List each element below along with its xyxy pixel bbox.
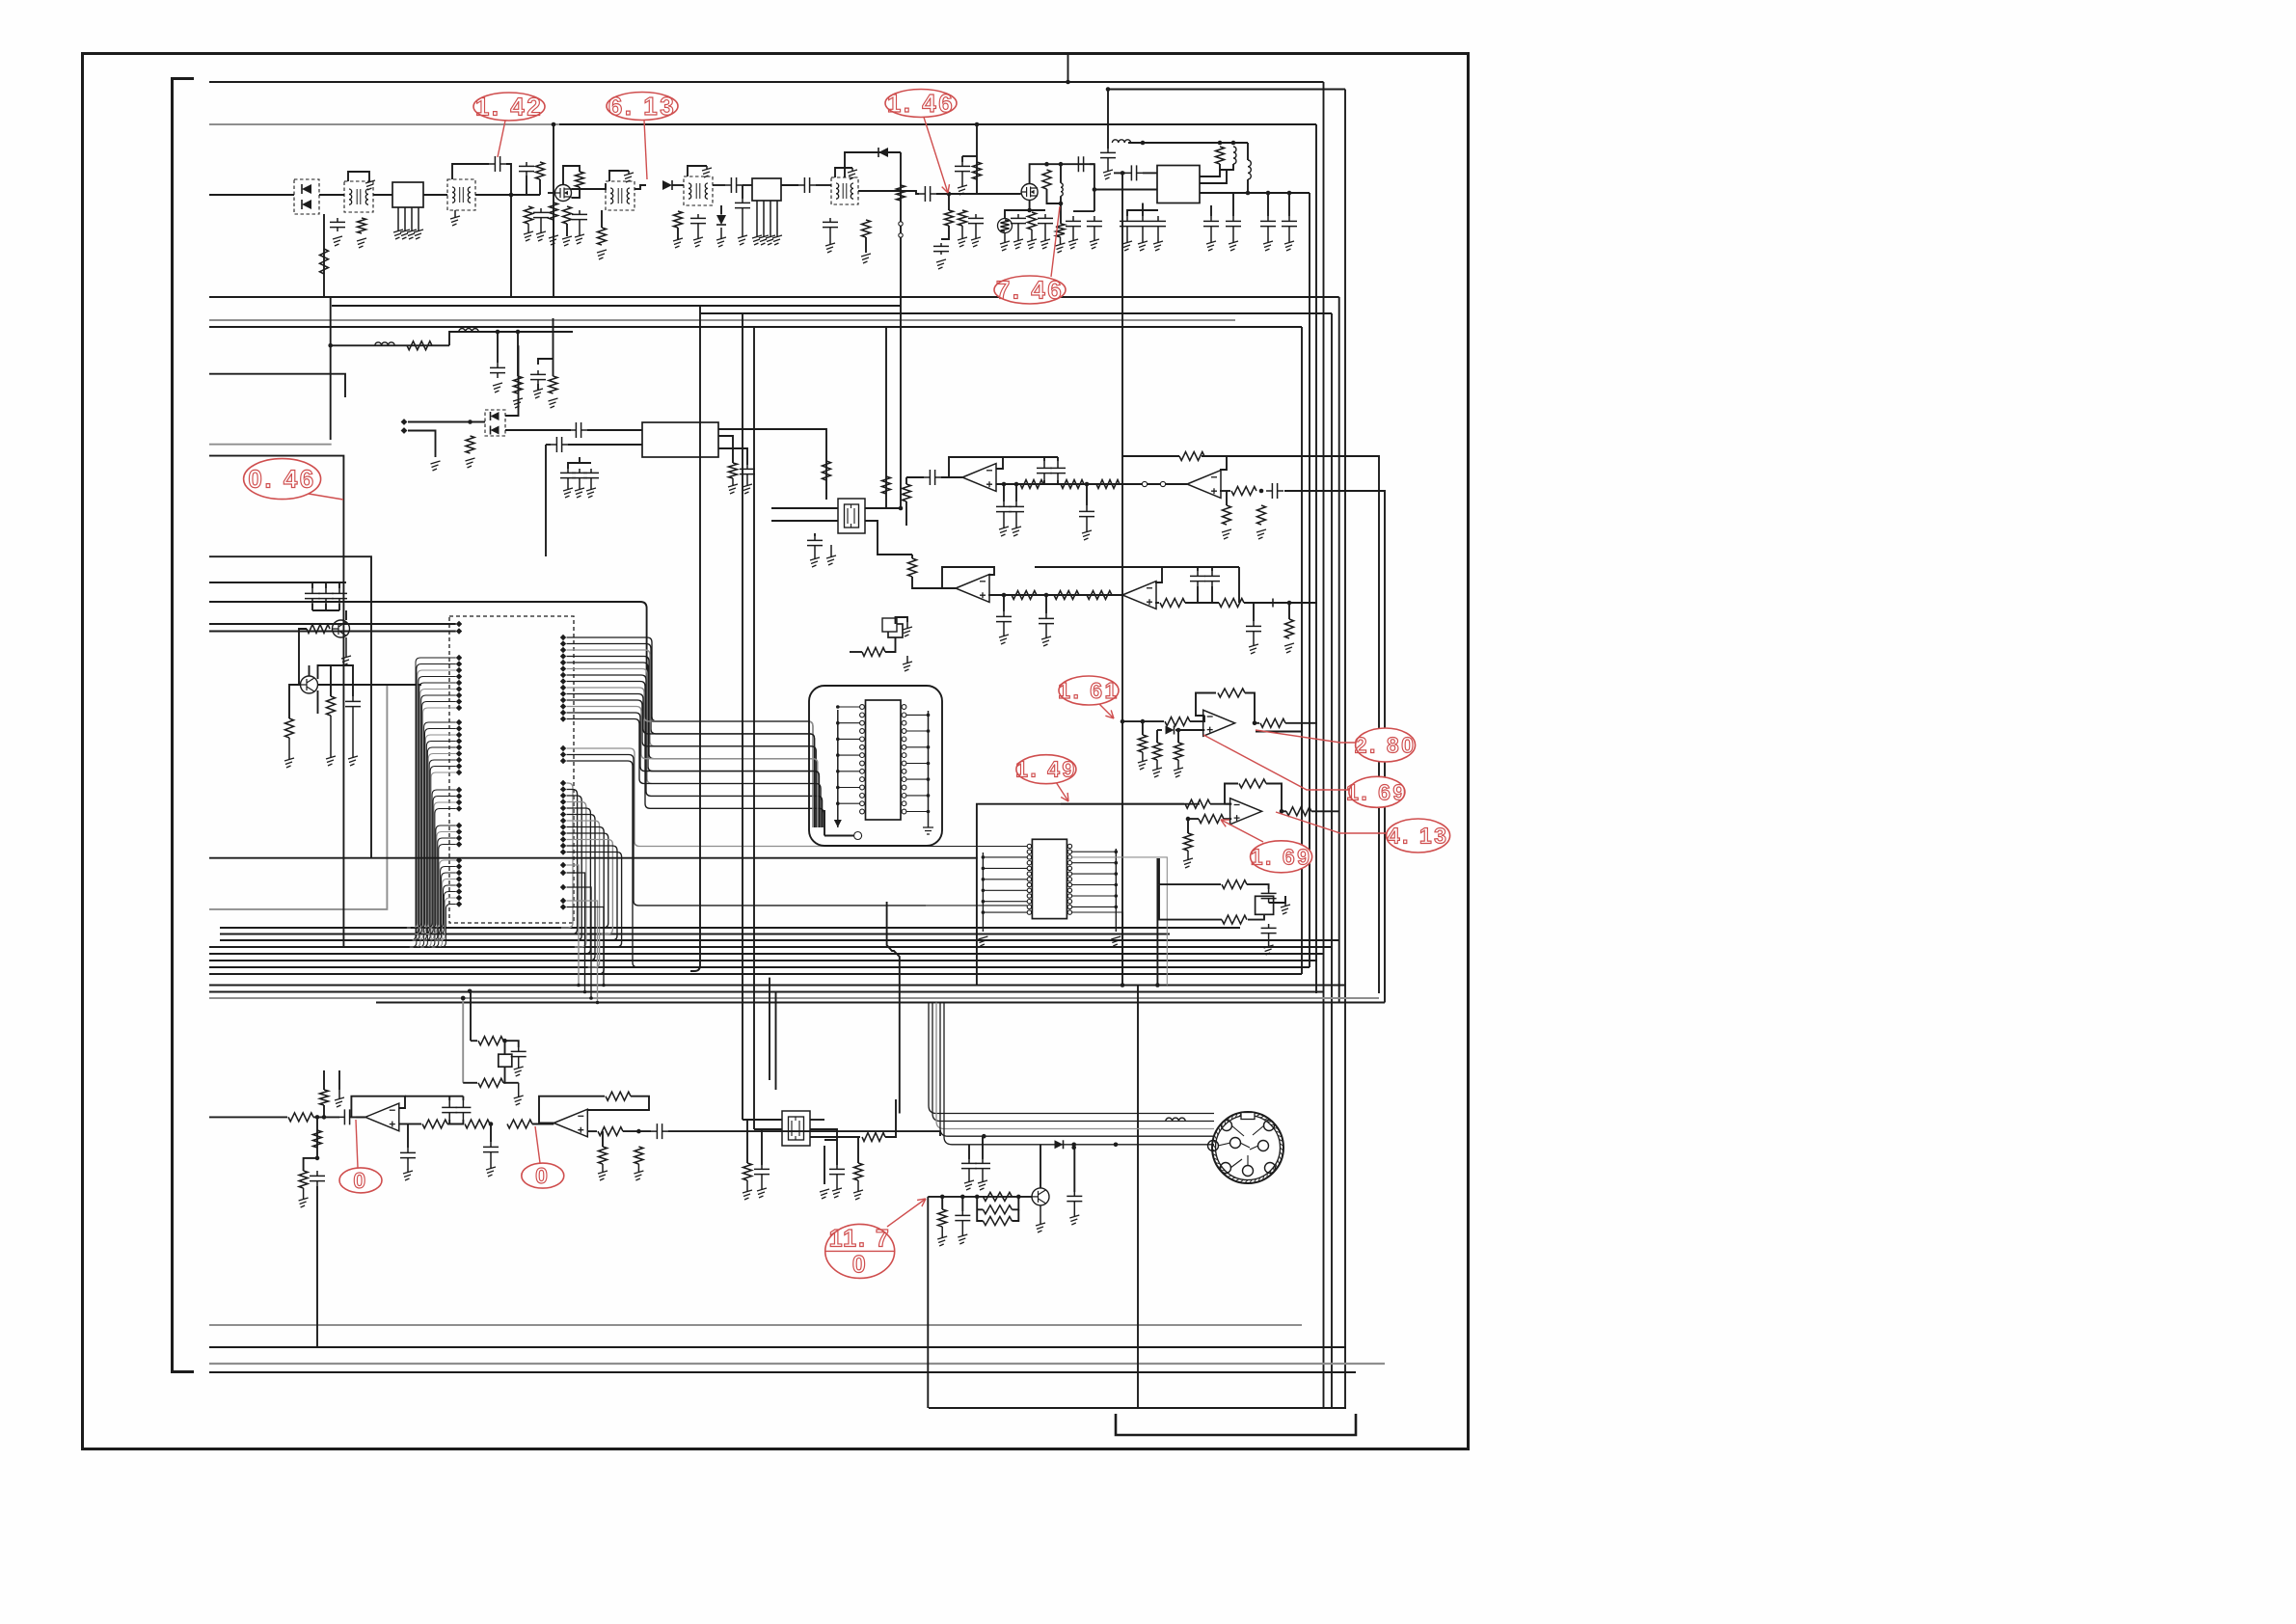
wire: [587, 1096, 649, 1110]
ground R23: [549, 398, 558, 408]
capacitor C12: [933, 243, 949, 255]
wire T5 top loop: [835, 168, 852, 177]
ground aux: [335, 1097, 344, 1107]
pin U3 R30: [560, 862, 566, 868]
wire to FL3: [587, 429, 642, 431]
junction: [1115, 861, 1119, 865]
wire U1B fb right: [1202, 456, 1227, 470]
wire: [311, 604, 313, 610]
capacitor bypass x1315: [1260, 216, 1276, 231]
junction: [1002, 593, 1007, 598]
pin U3 R22: [560, 805, 566, 811]
junction: [583, 990, 587, 994]
wire U1A feedback: [949, 457, 1003, 477]
ground Q5: [1036, 1223, 1045, 1232]
pin U3 L6: [456, 673, 462, 679]
ground R69: [634, 1171, 643, 1180]
pin U3 R32: [560, 884, 566, 890]
capacitor C13: [968, 214, 984, 228]
ground FL1 pin2: [404, 207, 406, 231]
wire: [977, 1197, 983, 1221]
wire U1B fb left: [1123, 456, 1179, 457]
wire: [746, 1120, 748, 1163]
ground R50: [1174, 768, 1183, 777]
wire: [1197, 586, 1199, 603]
junction: [315, 1115, 320, 1120]
ground R71: [299, 1198, 309, 1207]
wire: [1244, 602, 1289, 604]
wire X4 in1: [743, 1119, 782, 1121]
wire: [810, 1136, 860, 1138]
ground C19: [1107, 162, 1109, 172]
wire: [329, 628, 331, 630]
capacitor C21b: [1125, 165, 1143, 180]
resistor R43: [1285, 619, 1294, 638]
wire mid bundle 2: [220, 934, 1170, 935]
pin U3 L20: [456, 770, 462, 775]
junction: [1218, 141, 1223, 146]
resistor R16: [1028, 212, 1037, 230]
ground FL1 pin2: [400, 230, 410, 239]
pin U5 R2: [1067, 850, 1071, 853]
wire drop x770: [742, 313, 743, 1120]
wire: [968, 1145, 970, 1159]
pin U5 R3: [1067, 855, 1071, 859]
wire X4 in2: [754, 1128, 782, 1130]
wire U4 left bus: [837, 710, 839, 827]
wire: [566, 224, 568, 236]
wire: [316, 1117, 318, 1158]
resistor R8: [598, 228, 607, 245]
wire mid bundle 8: [209, 973, 1302, 975]
resistor R76: [938, 1209, 947, 1227]
junction: [1106, 87, 1111, 92]
wire bus top3 drop: [1315, 124, 1317, 993]
junction: [468, 420, 473, 424]
ground T3: [624, 173, 634, 182]
wire U5 left: [983, 879, 1027, 880]
capacitor C42: [1261, 889, 1277, 903]
ground FL2 pin1: [752, 235, 762, 245]
wire: [470, 991, 472, 993]
wire: [1060, 164, 1062, 183]
resistor R45: [327, 696, 336, 716]
wire to IC1 in1: [1143, 172, 1157, 174]
ground T4: [702, 168, 712, 177]
capacitor C34: [1079, 505, 1094, 523]
wire: [743, 184, 752, 186]
wire: [356, 1116, 365, 1118]
ground C x589b: [563, 488, 573, 498]
junction: [982, 867, 986, 871]
pin U4 R12: [902, 794, 906, 798]
junction: [836, 721, 840, 725]
ground FL1 pin1: [393, 230, 403, 239]
wire drop x804: [775, 992, 777, 1090]
wire bottom bus 2: [209, 1346, 1346, 1348]
pin U3 L28: [456, 841, 462, 847]
wire Q1 to T3: [572, 183, 607, 189]
wire: [323, 1070, 325, 1090]
junction: [1280, 809, 1284, 814]
schematic sheet border: [83, 54, 1469, 1449]
capacitor C14: [955, 162, 970, 176]
junction: [1059, 202, 1064, 206]
pin U5 L8: [1027, 882, 1031, 886]
wire: [1157, 729, 1162, 731]
junction: [836, 770, 840, 773]
wire bottom bus 3 (shield): [209, 1363, 1385, 1365]
ground C46: [407, 1163, 409, 1173]
wire drop x343: [330, 297, 332, 440]
ground C8: [742, 212, 743, 237]
ground R76: [937, 1236, 947, 1246]
pin U3 L34: [456, 888, 462, 894]
wire X1 right1: [865, 507, 901, 509]
resistor R36: [862, 648, 885, 657]
wire audio in: [209, 1116, 287, 1118]
pin U5 R10: [1067, 894, 1071, 898]
junction: [1246, 191, 1251, 196]
wire T1 top loop: [348, 172, 369, 181]
pin U4 R13: [902, 801, 906, 806]
wire bus C: [700, 312, 1332, 314]
wire: [718, 448, 747, 465]
ground R56: [1187, 851, 1189, 860]
pin U5 L5: [1027, 866, 1031, 870]
diode D4: [878, 148, 888, 157]
ground C40: [1249, 644, 1258, 654]
wire: [1073, 210, 1094, 212]
svg-text:4. 13: 4. 13: [1388, 824, 1449, 849]
wire stage1 supply drop: [553, 124, 554, 297]
wire: [1226, 491, 1228, 505]
junction: [836, 753, 840, 757]
junction: [589, 996, 593, 1000]
wire left net y943 (shield): [209, 685, 387, 909]
ground C30: [1003, 517, 1005, 528]
capacitor C37: [1039, 613, 1054, 629]
wire: [1159, 884, 1222, 920]
test point TP1: [854, 832, 862, 840]
resistor R52: [1260, 718, 1285, 727]
pin U3 R28: [560, 843, 566, 849]
junction: [636, 1129, 641, 1134]
resistor R33: [1231, 487, 1256, 496]
wire: [331, 665, 353, 696]
capacitor C56: [955, 1211, 970, 1225]
wire row1 feedback to right drop: [1202, 456, 1379, 993]
connector block U5: [1032, 839, 1067, 918]
ground FL2 pin3: [770, 201, 771, 237]
pin U4 L12: [860, 794, 865, 798]
ground R74: [853, 1190, 863, 1200]
ground R16: [1031, 230, 1033, 241]
measurement 1.69V (a): [1203, 735, 1408, 807]
resistor R57: [1286, 807, 1311, 816]
wire: [209, 582, 346, 583]
resistor R40: [1087, 591, 1112, 600]
ground FL1 pin3: [411, 207, 413, 231]
capacitor C16: [1011, 214, 1026, 228]
pin U5 L3: [1027, 855, 1031, 859]
ground C16: [1013, 239, 1023, 249]
resistor R78: [983, 1205, 1012, 1214]
wire: [448, 1120, 450, 1124]
capacitor C54: [961, 1159, 977, 1173]
ground C16: [1017, 228, 1019, 241]
wire U4 left: [838, 706, 860, 708]
ground R71: [303, 1188, 305, 1200]
wire: [1266, 784, 1282, 812]
wire X1 left1: [771, 507, 838, 509]
capacitor C x1201: [1150, 216, 1166, 231]
capacitor C x589b: [560, 469, 576, 482]
wire to right bus: [1289, 602, 1317, 604]
pin U4 L2: [860, 713, 865, 717]
wire: [325, 582, 327, 588]
ground R56: [1183, 858, 1193, 868]
ground C55: [982, 1173, 984, 1182]
wire: [553, 220, 554, 235]
pin U3 R29: [560, 849, 566, 854]
pin U3 L9: [456, 692, 462, 698]
wire mid bundle 6: [209, 960, 1317, 961]
ground R25: [728, 484, 738, 494]
measurement 4.13V: [1276, 812, 1450, 853]
capacitor C49: [483, 1142, 499, 1157]
junction: [1186, 817, 1191, 822]
capacitor C24: [530, 370, 546, 384]
junction: [489, 1122, 494, 1126]
wire T5 top to D4: [845, 152, 901, 177]
wire: [961, 1197, 963, 1211]
capacitor C47: [442, 1100, 457, 1120]
resistor R15: [1042, 170, 1051, 189]
ground FL1 pin4: [418, 207, 419, 231]
capacitor C x1185: [1135, 216, 1150, 231]
junction: [552, 122, 556, 127]
diode D5a: [491, 412, 500, 420]
capacitor C57: [1067, 1192, 1082, 1205]
wire: [503, 1041, 519, 1047]
wire U5 right: [1072, 884, 1117, 886]
junction: [1044, 162, 1049, 167]
wire: [623, 1130, 651, 1132]
wire to right bus: [1311, 810, 1339, 812]
wire: [546, 444, 551, 446]
filter FL2: [752, 178, 781, 201]
pin U4 R9: [902, 769, 906, 773]
wire U4 right: [906, 746, 929, 748]
ground T5: [848, 170, 857, 179]
crystal X2: [888, 624, 903, 637]
pin U3 R25: [560, 824, 566, 829]
wire U5 right: [1072, 906, 1117, 907]
wire: [672, 184, 684, 186]
junction: [927, 714, 931, 717]
capacitor C x324c: [305, 588, 320, 604]
wire: [677, 228, 679, 239]
diode D1b: [302, 200, 311, 209]
junction: [1155, 983, 1160, 988]
junction: [927, 745, 931, 749]
pin U5 R4: [1067, 861, 1071, 865]
wire vertical net x934: [900, 152, 902, 508]
measurement 0V (b): [522, 1126, 564, 1188]
ground FL1 pin4: [414, 230, 423, 239]
left interconnect bracket: [173, 79, 195, 1372]
resistor R13: [959, 210, 967, 226]
op-amp: [365, 1103, 399, 1131]
wire U5 right2: [1072, 912, 1123, 974]
wire mid bundle 4: [209, 946, 1332, 948]
capacitor C3: [519, 162, 534, 176]
wire U2B out: [1155, 602, 1159, 604]
ground C49: [490, 1157, 492, 1169]
capacitor C44: [511, 1047, 527, 1061]
ground C52: [757, 1188, 767, 1198]
junction: [975, 1195, 980, 1200]
ground R10: [861, 254, 871, 263]
pin U3 L25: [456, 823, 462, 828]
wire bus top1 drop: [1323, 82, 1325, 1407]
capacitor C46: [400, 1148, 416, 1163]
ground C14: [961, 176, 963, 187]
ground bypass x1337: [1288, 231, 1290, 243]
wire: [408, 1123, 421, 1125]
wire: [472, 163, 489, 165]
capacitor C x338c: [318, 588, 334, 604]
inductor L1 (7.46V): [1061, 183, 1063, 196]
wire D5 up: [505, 345, 519, 416]
resistor R22: [514, 376, 523, 393]
pin U3 R9: [560, 685, 566, 690]
capacitor C17: [1038, 214, 1053, 228]
wire U7 fb: [1225, 784, 1238, 804]
ground R4: [549, 235, 558, 245]
junction: [1231, 141, 1236, 146]
wire bus A drop: [1338, 297, 1340, 1002]
wire bus A: [209, 296, 1339, 298]
wire Q2 source: [1029, 201, 1031, 211]
capacitor C25: [570, 422, 587, 438]
wire mid bundle 1: [220, 927, 1240, 929]
resistor R30: [1061, 480, 1084, 489]
ground R43: [1284, 643, 1294, 653]
wire: [718, 436, 733, 463]
capacitor C x613b: [583, 469, 599, 482]
wire: [526, 176, 527, 195]
wire U5 frame/input (1.49 net): [977, 804, 1200, 986]
pin U5 L10: [1027, 894, 1031, 898]
ground C55: [978, 1180, 987, 1190]
ground R73: [743, 1190, 752, 1200]
svg-text:1. 61: 1. 61: [1058, 678, 1120, 703]
wire: [462, 1120, 464, 1124]
resistor R74: [854, 1163, 863, 1180]
jumper pin: [1160, 481, 1165, 486]
resistor R65: [507, 1120, 532, 1128]
wire bus C drop: [1331, 313, 1333, 1407]
ground C56: [958, 1234, 967, 1244]
measurement 1.49V: [1015, 755, 1077, 801]
ground C37: [1045, 629, 1047, 638]
MOSFET: [555, 185, 572, 202]
wire to right bus: [1302, 722, 1317, 724]
wire: [742, 185, 743, 199]
capacitor C48: [455, 1100, 471, 1120]
ground C30: [999, 527, 1009, 536]
pin U3 R26: [560, 830, 566, 836]
ground T2: [454, 210, 456, 218]
resistor R5: [525, 206, 533, 224]
capacitor C23: [490, 363, 505, 378]
pin U3 L2: [456, 628, 462, 634]
wire U7 out: [1282, 810, 1286, 812]
ground C28: [810, 557, 820, 567]
pin U5 R13: [1067, 910, 1071, 914]
pin U3 L22: [456, 793, 462, 798]
wire Q1 drain loop: [563, 166, 580, 185]
pin U3 L3: [456, 655, 462, 661]
diode pair D5 (dashed box): [485, 410, 505, 436]
junction: [1027, 208, 1032, 213]
wire: [373, 194, 392, 196]
ground bypass x1279: [1232, 231, 1234, 243]
wire mid divider: [209, 857, 978, 859]
pin U3 L29: [456, 857, 462, 863]
ground X1: [830, 545, 832, 557]
pin U3 L15: [456, 738, 462, 744]
wire: [1061, 803, 1184, 805]
wire U1B out: [1220, 490, 1230, 492]
junction: [927, 762, 931, 766]
resistor R7: [563, 206, 572, 224]
wire drop x726 (stub end): [690, 306, 700, 971]
wire: [538, 359, 554, 365]
pin U3 L24: [456, 805, 462, 811]
pin U3 R18: [560, 780, 566, 786]
ground C4: [540, 222, 542, 233]
capacitor C6: [690, 214, 706, 228]
jumper pin: [1142, 481, 1147, 486]
wire: [1220, 164, 1233, 170]
ground C x1201: [1157, 231, 1159, 243]
wire U8A fb: [351, 1096, 405, 1118]
wire U5 left bus: [982, 853, 984, 932]
connector block U4: [866, 700, 902, 820]
capacitor C x352c: [332, 588, 347, 604]
svg-text:1. 69: 1. 69: [1251, 844, 1312, 869]
wire bus top1: [209, 81, 1324, 83]
pin U5 R11: [1067, 900, 1071, 904]
ground C12: [936, 259, 946, 269]
pin U4 R6: [902, 744, 906, 749]
ground C19: [1103, 170, 1113, 179]
wire: [338, 582, 340, 588]
resistor R79: [983, 1217, 1012, 1226]
wire corner drop x933: [887, 902, 900, 1114]
wire: [761, 1129, 763, 1165]
ground FL2 pin2: [763, 201, 765, 237]
resistor R50: [1175, 743, 1183, 760]
wire Q5 collector: [1040, 1145, 1041, 1188]
wire: [713, 184, 725, 186]
junction: [1115, 894, 1119, 898]
pin U3 L32: [456, 876, 462, 881]
wire: [906, 476, 924, 478]
